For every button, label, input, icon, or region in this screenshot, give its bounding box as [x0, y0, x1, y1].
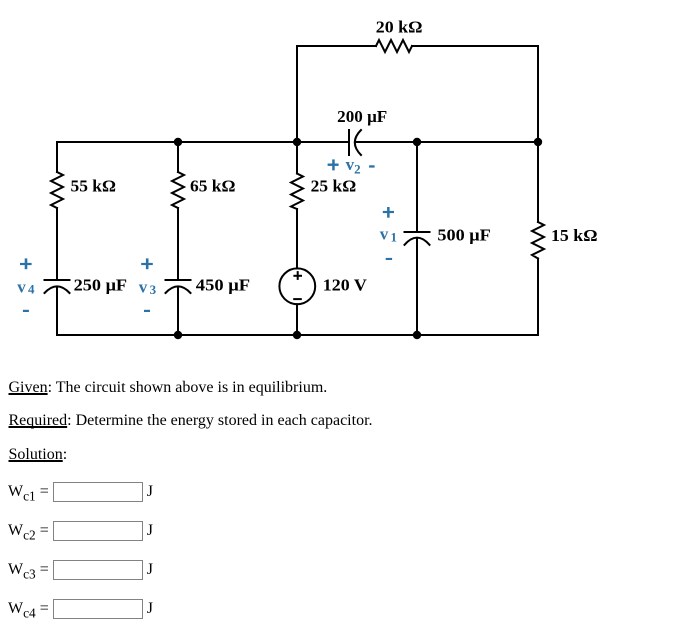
- svg-text:25 kΩ: 25 kΩ: [311, 176, 357, 195]
- label v1 polarity minus: [386, 258, 392, 260]
- capacitor C3 450uF straight plate: [166, 279, 191, 281]
- capacitor C1 500uF curved plate: [405, 238, 430, 245]
- resistor R3 65k: [172, 172, 184, 208]
- svg-text:v4: v4: [17, 277, 35, 296]
- svg-text:65 kΩ: 65 kΩ: [190, 176, 236, 195]
- node dot main rail E: [534, 138, 542, 146]
- label v4 polarity minus: [23, 310, 29, 312]
- wire column A lower: [56, 287, 58, 335]
- node dot bottom rail D: [413, 331, 421, 339]
- wire column D lower: [416, 239, 418, 336]
- wire column E lower: [537, 259, 539, 336]
- svg-text:450 μF: 450 μF: [196, 275, 250, 294]
- svg-text:15 kΩ: 15 kΩ: [551, 226, 598, 245]
- label v3 polarity minus: [144, 310, 150, 312]
- capacitor C2 200uF straight plate: [348, 130, 350, 155]
- node dot bottom rail C: [293, 331, 301, 339]
- resistor R 20k horizontal: [376, 40, 412, 52]
- svg-text:250 μF: 250 μF: [74, 275, 128, 294]
- svg-text:20 kΩ: 20 kΩ: [376, 18, 423, 37]
- label v2 polarity plus: [328, 164, 339, 166]
- voltage source plus sign: [293, 275, 302, 277]
- capacitor C2 200uF curved plate: [355, 130, 361, 155]
- voltage source minus sign: [293, 298, 302, 300]
- node dot bottom rail B: [174, 331, 182, 339]
- label v4 polarity plus: [20, 263, 32, 265]
- svg-text:120 V: 120 V: [323, 276, 368, 295]
- svg-text:500 μF: 500 μF: [437, 226, 490, 245]
- capacitor C3 450uF curved plate: [166, 286, 191, 293]
- wire column D upper: [416, 142, 418, 232]
- wire column C upper: [296, 142, 298, 174]
- wire column C middle: [296, 209, 298, 268]
- wire top loop right: [412, 46, 538, 142]
- svg-text:v2: v2: [346, 155, 361, 177]
- wire main rail right segment: [355, 141, 538, 143]
- svg-text:55 kΩ: 55 kΩ: [71, 176, 117, 195]
- wire column A upper: [56, 142, 58, 172]
- resistor R2 25k: [291, 174, 303, 210]
- svg-text:v1: v1: [380, 225, 397, 245]
- node dot main rail B: [174, 138, 182, 146]
- node dot main rail C: [293, 138, 301, 146]
- wire column E upper: [537, 142, 539, 222]
- label v2 polarity minus: [369, 165, 375, 167]
- node dot main rail D: [413, 138, 421, 146]
- label v3 polarity plus: [141, 263, 153, 265]
- capacitor C4 250uF straight plate: [45, 279, 70, 281]
- label v1 polarity plus: [383, 211, 394, 213]
- wire top loop left vertical: [297, 46, 376, 142]
- capacitor C4 250uF curved plate: [45, 286, 70, 293]
- voltage source V1 120V circle: [279, 268, 315, 304]
- svg-text:v3: v3: [139, 278, 157, 297]
- circuit schematic drawing: [0, 0, 683, 375]
- wire column B upper: [177, 142, 179, 172]
- wire column A middle: [56, 208, 58, 280]
- wire bottom rail: [57, 334, 538, 336]
- wire main rail left segment: [57, 141, 349, 143]
- wire column B middle: [177, 208, 179, 280]
- svg-text:200 μF: 200 μF: [337, 107, 387, 126]
- resistor R4 55k: [51, 172, 63, 208]
- resistor R1 15k: [532, 222, 544, 259]
- capacitor C1 500uF straight plate: [405, 231, 430, 233]
- wire column B lower: [177, 287, 179, 335]
- wire column C lower: [296, 304, 298, 335]
